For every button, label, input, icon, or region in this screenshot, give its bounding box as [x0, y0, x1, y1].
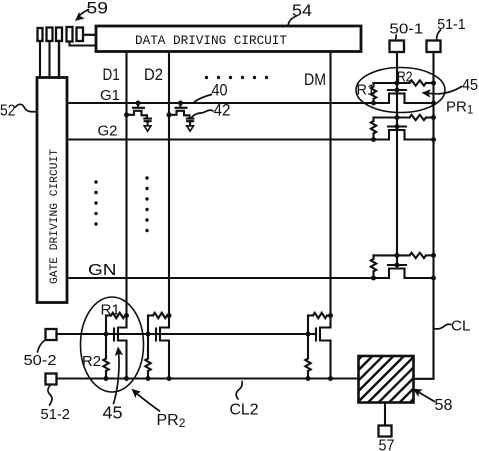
input pad 59-1 — [38, 28, 43, 41]
svg-text:GATE DRIVING CIRCUIT: GATE DRIVING CIRCUIT — [49, 149, 61, 284]
leader 50-1 — [395, 35, 398, 40]
gate line GN right segment to CL — [405, 277, 434, 279]
svg-text:D2: D2 — [144, 66, 163, 84]
svg-text:D1: D1 — [103, 66, 120, 84]
wire cell left line cell D2 — [148, 314, 153, 316]
leader 45 bottom — [114, 351, 120, 404]
svg-text:R2: R2 — [397, 69, 413, 86]
pad 57 — [379, 426, 392, 437]
wire box 58 to pad 57 — [384, 403, 386, 426]
ellipse PR1 — [356, 68, 445, 113]
common line CL vertical — [432, 52, 434, 379]
svg-text:52: 52 — [0, 103, 16, 120]
data line D2 — [168, 52, 170, 328]
resistor R2 of PR2 cell D1 — [105, 316, 107, 359]
svg-text:DATA DRIVING CIRCUIT: DATA DRIVING CIRCUIT — [135, 33, 287, 48]
wire pad4 to data box — [70, 42, 97, 46]
svg-text:G1: G1 — [100, 88, 120, 104]
node dots PR1 cell G1 — [395, 81, 400, 86]
leader 50-2 — [38, 340, 46, 352]
leader CL2 — [236, 382, 242, 400]
pad 50-2 — [46, 329, 57, 340]
svg-text:45: 45 — [462, 77, 478, 94]
svg-text:58: 58 — [435, 397, 453, 414]
svg-text:57: 57 — [379, 438, 395, 451]
pad 50-1 — [390, 41, 405, 53]
control line from pad 50-1 — [396, 52, 398, 265]
gate line G2 right segment to CL — [405, 138, 434, 140]
gate line GN — [67, 277, 389, 279]
wire box 58 right to CL — [414, 378, 434, 380]
vertical ellipsis dots col 1 — [94, 180, 97, 183]
leader PR2 — [136, 393, 160, 411]
svg-text:CL: CL — [451, 319, 471, 335]
protection TFT gate bar cell D2 — [155, 329, 157, 341]
node dots cell D2 — [167, 313, 172, 318]
wire pad5 to data box — [83, 34, 96, 36]
svg-text:R1: R1 — [101, 302, 121, 319]
resistor R1 of PR2 cell D1 — [111, 313, 125, 318]
ellipsis dots between D2 and DM — [205, 76, 208, 79]
wire pad1 to gate box — [39, 41, 41, 78]
node dots cell G2 — [395, 115, 400, 120]
gate line G1 right segment to CL — [405, 102, 434, 104]
input pad 59-4 — [67, 27, 73, 42]
protection TFT gate bar PR1 cell G1 — [388, 89, 406, 91]
svg-text:40: 40 — [212, 82, 228, 100]
protection TFT channel PR1 cell G1 — [389, 94, 405, 104]
svg-text:G2: G2 — [98, 123, 118, 140]
wire cell top line PR1 cell G1 — [374, 82, 410, 84]
wire cell left line PR2 cell D1 — [106, 314, 111, 316]
leader 54 — [288, 16, 296, 26]
protection TFT channel cell DM — [320, 328, 331, 379]
svg-text:R1: R1 — [357, 82, 376, 99]
leader 51-1 — [437, 30, 441, 40]
pad 51-2 — [46, 374, 57, 385]
gate line G1 — [67, 102, 389, 104]
wire cell top line cell G2 — [374, 116, 410, 118]
data line DM — [329, 52, 331, 328]
resistor R2 of cell G2 — [410, 115, 426, 120]
resistor R2 of PR1 cell G1 — [410, 80, 426, 85]
pixel TFT at D2/G1 with storage cap 42 — [178, 101, 183, 106]
svg-text:50-2: 50-2 — [24, 353, 57, 369]
resistor R1 of cell D2 — [153, 313, 167, 318]
wire cell top line cell GN — [374, 254, 410, 256]
svg-text:51-1: 51-1 — [437, 17, 466, 33]
leader 42 — [192, 110, 214, 117]
svg-text:GN: GN — [88, 262, 117, 279]
node dots cell GN — [395, 253, 400, 258]
node dots PR2 cell D1 — [124, 313, 129, 318]
node dots cell DM — [328, 313, 333, 318]
protection TFT channel cell GN — [389, 269, 405, 279]
svg-text:50-1: 50-1 — [389, 22, 423, 38]
svg-text:42: 42 — [214, 102, 231, 120]
leader 59 — [78, 10, 89, 18]
protection TFT channel cell G2 — [389, 130, 405, 140]
resistor R2 of cell D2 — [147, 316, 149, 359]
wire pad2 to gate box — [48, 41, 50, 78]
svg-text:51-2: 51-2 — [41, 407, 71, 423]
input pad 59-2 — [47, 28, 53, 42]
pixel TFT 40 at D1/G1 — [136, 101, 141, 106]
svg-text:DM: DM — [304, 71, 326, 89]
gate line G2 — [67, 138, 389, 140]
data driving circuit box 54 — [96, 26, 361, 52]
resistor R2 of cell GN — [410, 253, 426, 258]
leader 52 — [15, 104, 36, 111]
common line CL2 from pad 51-2 — [57, 377, 359, 379]
ellipse PR2 — [81, 297, 144, 392]
protection TFT gate bar cell DM — [315, 329, 317, 341]
data line D1 — [125, 52, 127, 328]
resistor R2 of cell DM — [307, 316, 309, 359]
input pad 59-5 — [77, 28, 84, 42]
protection TFT gate bar cell GN — [388, 264, 406, 266]
leader 51-2 — [48, 386, 52, 406]
resistor R1 of cell G2 — [372, 118, 374, 122]
resistor R1 of PR1 cell G1 — [372, 83, 374, 87]
pad 51-1 — [427, 41, 441, 53]
svg-text:R2: R2 — [82, 353, 101, 370]
gate driving circuit box 52 — [37, 78, 67, 303]
wire pad3 to gate box — [58, 41, 60, 78]
protection TFT gate bar cell G2 — [388, 125, 406, 127]
resistor R1 of cell GN — [372, 255, 374, 259]
svg-text:59: 59 — [87, 0, 109, 17]
input pad 59-3 — [56, 28, 62, 42]
protection TFT channel cell D2 — [160, 328, 169, 379]
row line from pad 50-2 — [57, 333, 317, 335]
protection TFT channel PR2 cell D1 — [118, 328, 127, 379]
svg-text:45: 45 — [103, 403, 123, 423]
vertical ellipsis dots col 2 — [145, 176, 148, 179]
svg-text:CL2: CL2 — [230, 402, 259, 419]
leader 58 — [418, 392, 435, 402]
resistor R1 of cell DM — [313, 313, 327, 318]
wire cell left line cell DM — [308, 314, 313, 316]
leader 45 top-right — [430, 87, 462, 94]
leader 40 — [195, 95, 212, 102]
protection TFT gate bar PR2 cell D1 — [113, 329, 115, 341]
leader CL — [435, 324, 451, 329]
